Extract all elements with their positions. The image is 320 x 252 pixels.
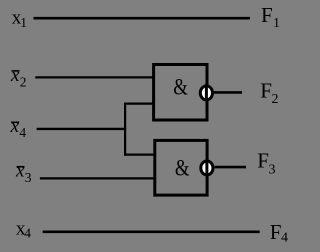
U1 inversion bubble [200, 86, 212, 100]
svg-text:2: 2 [272, 92, 279, 107]
output label F2 [260, 78, 278, 107]
nand gate U2 body [155, 140, 207, 195]
input label x2 (inverted) [10, 65, 27, 90]
input label x1 [12, 8, 27, 30]
input label x3 (inverted) [15, 160, 32, 185]
svg-text:2: 2 [20, 75, 27, 90]
wire x3 to U2 input B [40, 177, 155, 179]
svg-text:4: 4 [24, 226, 31, 241]
svg-text:F: F [257, 149, 269, 173]
nand gate U1 body [154, 65, 207, 121]
U2 inversion bubble [201, 161, 213, 175]
output label F1 [261, 3, 280, 31]
svg-text:x: x [10, 116, 20, 137]
svg-text:3: 3 [269, 163, 276, 178]
svg-text:4: 4 [281, 231, 288, 246]
wire branch to U1 input B [124, 102, 154, 104]
input label x4 (bottom) [16, 219, 31, 241]
svg-text:&: & [173, 74, 188, 100]
svg-text:1: 1 [20, 15, 27, 30]
svg-text:3: 3 [25, 170, 32, 185]
svg-text:F: F [261, 3, 273, 27]
wire x4bar horizontal [37, 128, 127, 130]
wire branch to U2 input A [124, 154, 155, 156]
svg-text:&: & [175, 156, 190, 182]
wire x4 to F4 [43, 231, 260, 234]
U2 bubble centre line [205, 161, 208, 175]
branch node vertical wire at x=125 [124, 103, 126, 156]
svg-text:x: x [15, 160, 25, 181]
svg-text:1: 1 [273, 16, 280, 31]
svg-text:F: F [270, 220, 282, 244]
output label F4 [270, 220, 288, 246]
svg-text:F: F [260, 78, 272, 102]
wire U2 output to F3 [215, 166, 246, 169]
wire x1 to F1 [34, 17, 251, 20]
input label x4 (inverted) [10, 116, 27, 140]
svg-text:x: x [10, 65, 20, 86]
output label F3 [257, 149, 275, 178]
wire x2 to U1 input A [35, 76, 154, 78]
U1 bubble centre line [205, 86, 208, 100]
wire U1 output to F2 [214, 91, 243, 94]
svg-text:4: 4 [19, 125, 26, 140]
